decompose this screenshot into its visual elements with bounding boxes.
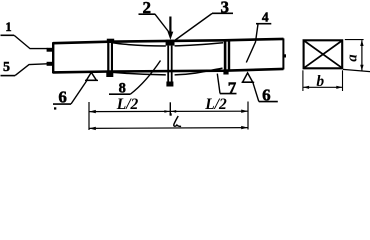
- svg-text:6: 6: [58, 88, 67, 107]
- svg-text:6: 6: [262, 85, 271, 104]
- svg-text:3: 3: [220, 0, 229, 16]
- svg-text:b: b: [316, 73, 324, 90]
- svg-text:L/2: L/2: [116, 96, 139, 113]
- svg-text:8: 8: [119, 80, 126, 96]
- svg-text:L/2: L/2: [204, 96, 227, 113]
- svg-text:a: a: [345, 54, 361, 61]
- svg-text:5: 5: [3, 60, 10, 75]
- svg-text:1: 1: [5, 20, 11, 34]
- svg-text:2: 2: [143, 0, 152, 17]
- svg-text:7: 7: [228, 79, 237, 98]
- svg-text:4: 4: [262, 10, 269, 25]
